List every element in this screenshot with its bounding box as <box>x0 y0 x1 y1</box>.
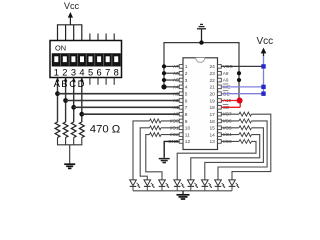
svg-text:23: 23 <box>209 71 215 77</box>
svg-text:22: 22 <box>209 78 215 84</box>
svg-text:5: 5 <box>88 68 93 78</box>
wire D vertical <box>81 78 83 123</box>
svg-text:3: 3 <box>71 68 76 78</box>
power symbol Vcc arrow (left) <box>68 12 73 25</box>
junction dot pin 4 <box>161 84 166 89</box>
ground (LED bus) <box>177 195 190 199</box>
wire IC pin 16 I/O6 <box>221 120 239 122</box>
wire IC pin 10 I/O1 <box>161 127 179 129</box>
wire B vertical <box>65 78 67 123</box>
resistor R11 <box>239 119 252 123</box>
svg-text:11: 11 <box>185 132 190 138</box>
svg-text:15: 15 <box>209 126 215 132</box>
DIP switch sliders <box>52 54 121 67</box>
node D arrow+label <box>78 78 85 89</box>
wire IC pin 9 I/O0 <box>161 120 179 122</box>
svg-text:A1: A1 <box>173 105 179 110</box>
IC U1 pin labels <box>168 64 233 144</box>
svg-text:8: 8 <box>114 68 119 78</box>
wire IC pin 12 GND <box>164 141 179 157</box>
resistor R3 (470) <box>71 122 76 145</box>
wire IC pin 4 to frame <box>164 86 179 88</box>
svg-text:24: 24 <box>209 64 215 70</box>
LED D1 <box>130 180 141 191</box>
DIP top pin stubs 5-8 <box>90 34 114 41</box>
wire B to IC pin 6 <box>66 100 180 102</box>
ground (top, inverted) <box>197 24 206 42</box>
LED D6 <box>202 180 213 191</box>
LED D2 <box>144 180 155 191</box>
wire C to IC pin 7 <box>74 106 180 108</box>
DIP bottom pin stubs 5-8 <box>90 78 114 85</box>
svg-text:Vcc: Vcc <box>64 1 80 11</box>
svg-text:Vcc: Vcc <box>256 36 273 47</box>
svg-text:5: 5 <box>185 91 188 97</box>
LED D4 <box>174 180 185 191</box>
wire R12 to LED D8 <box>232 114 271 180</box>
svg-text:ON: ON <box>55 43 66 52</box>
resistor R12 <box>239 112 252 116</box>
svg-text:1: 1 <box>185 64 188 70</box>
svg-text:20: 20 <box>209 91 215 97</box>
power label Vcc (left) <box>64 1 80 11</box>
node A arrow+label <box>54 78 61 89</box>
wire IC pin 24 VCC <box>221 65 263 67</box>
svg-text:12: 12 <box>185 139 191 145</box>
junction dot pin 2 <box>162 71 166 75</box>
junction dot pin 23 <box>237 71 241 75</box>
svg-text:6: 6 <box>97 68 102 78</box>
junction dot Vcc/pin24 <box>261 64 265 68</box>
resistor R7 <box>150 133 162 137</box>
resistor R8 <box>239 139 252 143</box>
wire IC pin 17 I/O7 <box>221 113 239 115</box>
wire bus to ground <box>69 145 71 164</box>
IC U1 pin numbers <box>185 64 215 145</box>
svg-text:14: 14 <box>209 132 215 138</box>
wire A vertical <box>57 78 59 123</box>
wire IC pin 1 to frame <box>164 65 179 67</box>
svg-text:7: 7 <box>185 105 188 111</box>
LED D5 <box>188 180 199 191</box>
svg-text:16: 16 <box>209 119 215 125</box>
resistor R9 <box>239 133 252 137</box>
svg-text:9: 9 <box>185 119 188 125</box>
svg-text:17: 17 <box>209 112 215 118</box>
wire ground frame top rail <box>163 42 239 44</box>
wire IC pin 13 I/O3 <box>221 140 239 142</box>
wire IC pin 21 WE (blue) <box>221 86 263 88</box>
wire IC pin 15 I/O5 <box>221 127 239 129</box>
wire red vertical <box>239 101 241 108</box>
svg-text:470 Ω: 470 Ω <box>90 124 120 136</box>
wire IC pin 19 A10 (red) <box>221 100 240 102</box>
ground (resistor network) <box>64 164 75 168</box>
wire IC pin 11 I/O2 <box>161 134 179 136</box>
resistor R10 <box>239 126 252 130</box>
wire R11 to LED D7 <box>218 121 267 180</box>
junction dot node A <box>55 91 60 96</box>
LED D8 <box>229 180 240 191</box>
wire A to IC pin 5 <box>58 93 180 95</box>
svg-text:8: 8 <box>185 112 188 118</box>
resistor R2 (470) <box>63 122 68 145</box>
svg-text:21: 21 <box>209 85 215 91</box>
DIP switch SW1 body <box>50 41 122 78</box>
wire Vcc rail to DIP <box>57 25 83 41</box>
svg-text:A2: A2 <box>173 98 179 103</box>
wire R9 to LED D5 <box>191 135 260 180</box>
svg-text:2: 2 <box>62 68 67 78</box>
DIP switch position numbers 1-8 <box>54 68 119 78</box>
wire IC pin 2 to frame <box>164 72 179 74</box>
svg-text:C: C <box>69 78 76 89</box>
wire LED bus <box>133 190 232 192</box>
wire IC pin 3 to frame <box>164 79 179 81</box>
junction dot node C <box>71 105 76 110</box>
wire ground frame left vertical <box>163 43 165 87</box>
wire IC pin 18 CE (red) <box>221 106 240 108</box>
value label 470 Ohm <box>90 124 120 136</box>
wire R5 to LED D1 <box>133 121 150 180</box>
wire bus to ground (LEDs) <box>182 191 184 194</box>
junction dot Vcc/pin20 <box>261 91 265 95</box>
junction dot node B <box>63 98 68 103</box>
power symbol Vcc arrow (right) <box>261 48 267 57</box>
svg-text:A8: A8 <box>223 71 229 76</box>
op IC U1 6116 body <box>183 58 218 150</box>
junction dot pin 3 <box>162 78 166 82</box>
junction dot pin 1 <box>162 64 166 68</box>
resistor R1 (470) <box>55 122 60 145</box>
DIP switch label ON <box>55 43 66 52</box>
resistor R4 (470) <box>79 122 84 145</box>
wire resistor bus <box>57 144 82 146</box>
IC U1 pin boxes <box>179 65 221 144</box>
wire Vcc blue vertical <box>263 56 265 94</box>
svg-text:6: 6 <box>185 98 188 104</box>
node B arrow+label <box>61 78 67 89</box>
resistor R5 <box>150 119 162 123</box>
wire R7 to LED D3 <box>146 135 162 180</box>
svg-text:19: 19 <box>209 98 215 104</box>
wire IC pin 20 OE (blue) <box>221 93 263 95</box>
svg-text:A0: A0 <box>173 112 179 117</box>
LED D7 <box>215 180 226 191</box>
svg-text:4: 4 <box>79 68 84 78</box>
junction dot A10/ground (red) <box>237 98 243 104</box>
junction dot pin 22 <box>237 78 241 82</box>
svg-text:13: 13 <box>209 139 215 145</box>
wire R8 to LED D4 <box>177 141 256 179</box>
svg-text:3: 3 <box>185 78 188 84</box>
junction dot top ground <box>199 40 203 44</box>
power label Vcc (right) <box>256 36 273 47</box>
svg-text:4: 4 <box>185 85 188 91</box>
wire C vertical <box>73 78 75 123</box>
svg-text:7: 7 <box>105 68 110 78</box>
svg-text:1: 1 <box>54 68 59 78</box>
svg-text:2: 2 <box>185 71 188 77</box>
svg-text:B: B <box>61 78 67 89</box>
node C arrow+label <box>69 78 76 89</box>
junction dot Vcc/pin21 <box>261 85 265 89</box>
svg-text:A: A <box>54 78 61 89</box>
wire IC pin 14 I/O4 <box>221 134 239 136</box>
junction dot node D <box>79 112 84 117</box>
ground (IC pin 12) <box>159 159 170 163</box>
svg-text:10: 10 <box>185 126 191 132</box>
LED D3 <box>159 180 170 191</box>
svg-text:D: D <box>78 78 85 89</box>
svg-text:A3: A3 <box>173 91 179 96</box>
wire D to IC pin 8 <box>82 113 179 115</box>
svg-text:18: 18 <box>209 105 215 111</box>
wire ground frame right vertical <box>238 43 240 101</box>
svg-text:A9: A9 <box>223 78 229 83</box>
resistor R6 <box>150 126 162 130</box>
wire R6 to LED D2 <box>140 128 149 180</box>
wire R10 to LED D6 <box>205 128 264 180</box>
